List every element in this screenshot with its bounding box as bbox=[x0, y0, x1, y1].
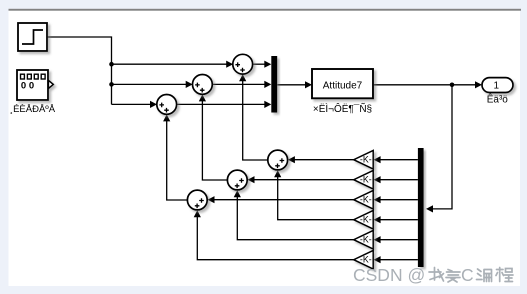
gain G5 bbox=[354, 230, 374, 249]
hanzi cheng bbox=[496, 268, 513, 282]
svg-text:×ËÌ¬ÔË¶¯Ñ§: ×ËÌ¬ÔË¶¯Ñ§ bbox=[313, 102, 372, 115]
wire G4 to sum S6 bottom input bbox=[278, 177, 354, 220]
wire mux to Attitude7 bbox=[277, 84, 306, 86]
svg-text:CSDN @: CSDN @ bbox=[353, 265, 425, 285]
svg-text:-K-: -K- bbox=[360, 215, 372, 225]
wire G5 to sum S5 bottom input bbox=[237, 197, 353, 240]
demux bar bbox=[418, 148, 424, 267]
gain G4 bbox=[354, 210, 374, 229]
arrowhead into G2 bbox=[374, 176, 381, 183]
sum S1 bbox=[233, 54, 253, 74]
wire branch to sum S1 left input bbox=[112, 63, 228, 65]
step source block bbox=[18, 23, 47, 51]
sum S2 bbox=[193, 75, 213, 95]
arrowhead into G4 bbox=[374, 216, 381, 223]
wire G1 to sum S6 right input bbox=[295, 159, 354, 161]
wire S5 output to S2 bottom input bbox=[202, 101, 227, 180]
arrowhead into S5 right bbox=[248, 176, 255, 183]
svg-text:Attitude7: Attitude7 bbox=[323, 80, 363, 91]
arrowhead into S4 bottom bbox=[194, 210, 201, 217]
arrowhead into S4 right bbox=[208, 196, 215, 203]
arrowhead S3 into mux bbox=[264, 101, 271, 108]
svg-text:1: 1 bbox=[494, 81, 500, 92]
wire S6 output to S1 bottom input bbox=[243, 81, 268, 160]
arrowhead into S5 bottom bbox=[234, 190, 241, 197]
arrowhead into G1 bbox=[374, 156, 381, 163]
arrowhead into demux right bbox=[426, 205, 433, 212]
watermark CSDN bbox=[353, 265, 474, 285]
junction node J2 bbox=[109, 82, 114, 87]
wire step output down branch column bbox=[47, 37, 112, 104]
wire Attitude7 to output port bbox=[373, 84, 476, 86]
hanzi ai bbox=[446, 270, 460, 283]
sum S4 bbox=[187, 190, 207, 210]
hanzi bian bbox=[477, 269, 492, 282]
output port 1 bbox=[482, 78, 513, 93]
gain G2 bbox=[354, 170, 374, 189]
hanzi wo bbox=[429, 268, 444, 282]
svg-text:-K-: -K- bbox=[360, 155, 372, 165]
junction node J1 bbox=[109, 62, 114, 67]
subsystem U1 Attitude7 bbox=[312, 69, 373, 98]
wire S3 to mux bbox=[176, 103, 265, 105]
arrowhead into S6 right bbox=[288, 156, 295, 163]
wire demux to gain G1 bbox=[380, 159, 418, 161]
gain G1 bbox=[354, 150, 374, 169]
wire feedback down to demux bbox=[433, 85, 453, 209]
arrowhead into S3 left bbox=[150, 101, 157, 108]
wire S1 to mux bbox=[252, 63, 265, 65]
arrowhead into S2 left bbox=[186, 81, 193, 88]
arrowhead into G5 bbox=[374, 236, 381, 243]
svg-text:-K-: -K- bbox=[360, 175, 372, 185]
wire G2 to sum S5 right input bbox=[254, 179, 354, 181]
sum S3 bbox=[157, 95, 177, 115]
arrowhead into S1 left bbox=[226, 61, 233, 68]
wire G3 to sum S4 right input bbox=[214, 199, 354, 201]
sum S5 bbox=[227, 170, 247, 190]
svg-text:0 0: 0 0 bbox=[21, 81, 34, 92]
wire branch to sum S2 left input bbox=[112, 83, 187, 85]
arrowhead into S3 bottom bbox=[163, 114, 170, 121]
sum S6 bbox=[268, 150, 288, 170]
svg-text:-K-: -K- bbox=[360, 255, 372, 265]
svg-text:¸ÉÈÅÐÅºÅ: ¸ÉÈÅÐÅºÅ bbox=[10, 104, 56, 115]
wire demux to gain G6 bbox=[380, 259, 418, 261]
gain G3 bbox=[354, 190, 374, 209]
arrowhead S2 into mux bbox=[264, 81, 271, 88]
mux bar bbox=[271, 56, 277, 113]
svg-text:-K-: -K- bbox=[360, 195, 372, 205]
arrowhead into G6 bbox=[374, 256, 381, 263]
wire G6 to sum S4 bottom input bbox=[197, 217, 353, 260]
wire demux to gain G2 bbox=[380, 179, 418, 181]
arrowhead into S1 bottom bbox=[239, 74, 246, 81]
arrowhead S1 into mux bbox=[264, 61, 271, 68]
interference signal source block bbox=[17, 70, 53, 100]
gain G6 bbox=[354, 250, 374, 269]
junction node J3 bbox=[450, 83, 455, 88]
wire S2 to mux bbox=[212, 83, 265, 85]
arrowhead into S6 bottom bbox=[274, 170, 281, 177]
svg-text:C: C bbox=[461, 265, 474, 285]
wire branch to sum S3 left input bbox=[112, 103, 151, 105]
arrowhead into Attitude7 bbox=[305, 81, 312, 88]
arrowhead into output port bbox=[475, 81, 482, 88]
wire demux to gain G3 bbox=[380, 199, 418, 201]
svg-text:-K-: -K- bbox=[360, 235, 372, 245]
arrowhead into S2 bottom bbox=[199, 94, 206, 101]
wire S4 output to S3 bottom input bbox=[167, 121, 188, 200]
wire demux to gain G5 bbox=[380, 239, 418, 241]
arrowhead into G3 bbox=[374, 196, 381, 203]
wire demux to gain G4 bbox=[380, 219, 418, 221]
svg-text:Êä³ö: Êä³ö bbox=[487, 93, 509, 106]
